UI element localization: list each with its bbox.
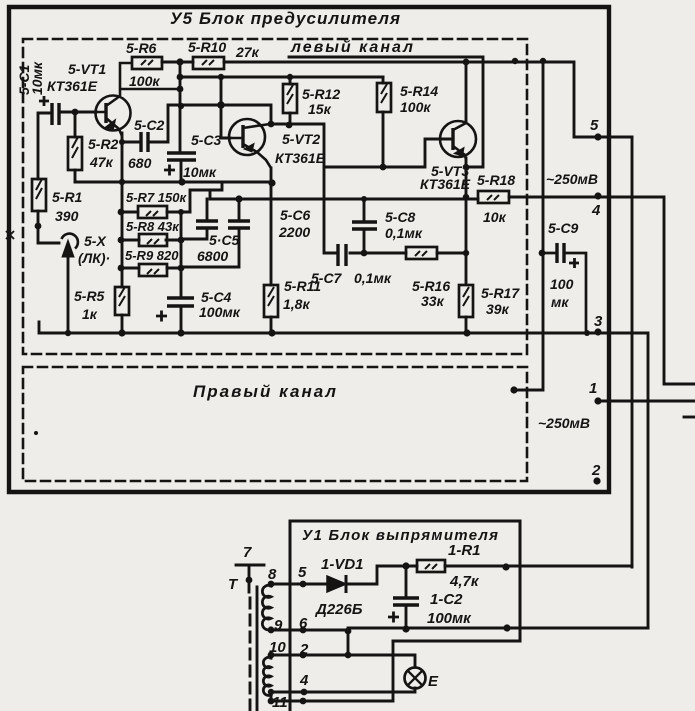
svg-text:5-R9 820: 5-R9 820 — [125, 248, 179, 263]
svg-text:2200: 2200 — [278, 224, 310, 240]
svg-text:2: 2 — [299, 641, 309, 658]
svg-text:10мк: 10мк — [183, 164, 217, 180]
svg-text:4: 4 — [299, 672, 309, 689]
svg-text:6: 6 — [299, 615, 308, 632]
svg-text:КТ361Е: КТ361Е — [275, 150, 326, 166]
svg-text:~250мВ: ~250мВ — [546, 171, 598, 187]
svg-text:5-Х: 5-Х — [84, 233, 107, 249]
svg-text:5-R10: 5-R10 — [188, 39, 226, 55]
svg-text:5-R5: 5-R5 — [74, 288, 105, 304]
svg-text:7: 7 — [243, 544, 252, 561]
svg-text:5-R1: 5-R1 — [52, 189, 83, 205]
svg-text:5-R2: 5-R2 — [88, 136, 119, 152]
svg-text:5-С4: 5-С4 — [201, 289, 232, 305]
svg-text:Д226Б: Д226Б — [314, 601, 363, 618]
svg-text:5-С6: 5-С6 — [280, 207, 311, 223]
svg-text:5-С9: 5-С9 — [548, 220, 579, 236]
svg-text:100мк: 100мк — [199, 304, 241, 320]
svg-text:Правый канал: Правый канал — [193, 382, 336, 401]
svg-text:1-R1: 1-R1 — [448, 542, 481, 559]
svg-text:100мк: 100мк — [427, 610, 472, 627]
svg-text:10к: 10к — [483, 209, 507, 225]
svg-text:5-R18: 5-R18 — [477, 172, 515, 188]
svg-text:10: 10 — [269, 639, 286, 656]
svg-text:5-R8 43к: 5-R8 43к — [126, 219, 180, 234]
svg-text:100: 100 — [550, 276, 574, 292]
svg-text:8: 8 — [268, 566, 277, 583]
svg-text:1,8к: 1,8к — [283, 296, 310, 312]
svg-text:27к: 27к — [235, 44, 260, 60]
svg-text:9: 9 — [274, 617, 283, 634]
svg-text:100к: 100к — [129, 73, 160, 89]
svg-text:3: 3 — [594, 313, 603, 330]
svg-text:~250мВ: ~250мВ — [538, 415, 590, 431]
svg-text:39к: 39к — [486, 301, 510, 317]
svg-text:1-С2: 1-С2 — [430, 591, 463, 608]
svg-text:1к: 1к — [82, 306, 98, 322]
svg-text:680: 680 — [128, 155, 152, 171]
svg-text:100к: 100к — [400, 99, 431, 115]
svg-text:мк: мк — [551, 294, 569, 310]
svg-text:5-С3: 5-С3 — [191, 132, 222, 148]
svg-text:5-R6: 5-R6 — [126, 40, 157, 56]
svg-text:5-С8: 5-С8 — [385, 209, 416, 225]
svg-text:5-R12: 5-R12 — [302, 86, 340, 102]
svg-text:1-VD1: 1-VD1 — [321, 556, 364, 573]
svg-text:5: 5 — [590, 117, 599, 134]
svg-text:5-R17: 5-R17 — [481, 285, 520, 301]
svg-text:4,7к: 4,7к — [449, 573, 480, 590]
svg-text:5-R16: 5-R16 — [412, 278, 450, 294]
svg-text:15к: 15к — [308, 101, 332, 117]
svg-text:11: 11 — [272, 694, 288, 711]
svg-text:1: 1 — [589, 380, 597, 397]
svg-text:0,1мк: 0,1мк — [385, 225, 423, 241]
svg-text:КТ361Е: КТ361Е — [47, 78, 98, 94]
svg-text:5-VT1: 5-VT1 — [68, 61, 106, 77]
svg-text:4: 4 — [591, 202, 601, 219]
svg-text:КТ361Е: КТ361Е — [420, 176, 471, 192]
svg-text:(ЛК)·: (ЛК)· — [78, 250, 110, 266]
svg-text:2: 2 — [591, 462, 601, 479]
svg-text:5-R14: 5-R14 — [400, 83, 438, 99]
svg-text:390: 390 — [55, 208, 79, 224]
svg-text:47к: 47к — [89, 154, 114, 170]
svg-text:У5 Блок предусилителя: У5 Блок предусилителя — [170, 9, 400, 28]
svg-text:5-С2: 5-С2 — [134, 117, 165, 133]
svg-text:0,1мк: 0,1мк — [354, 270, 392, 286]
svg-text:5-VT2: 5-VT2 — [282, 131, 320, 147]
svg-text:33к: 33к — [421, 293, 445, 309]
svg-text:5-R7 150к: 5-R7 150к — [126, 190, 187, 205]
svg-text:6800: 6800 — [197, 248, 228, 264]
svg-text:5-R11: 5-R11 — [284, 278, 321, 294]
svg-text:5: 5 — [298, 564, 307, 581]
svg-text:5·С5: 5·С5 — [209, 232, 240, 248]
svg-text:Е: Е — [428, 673, 439, 690]
svg-text:10мк: 10мк — [29, 61, 45, 95]
